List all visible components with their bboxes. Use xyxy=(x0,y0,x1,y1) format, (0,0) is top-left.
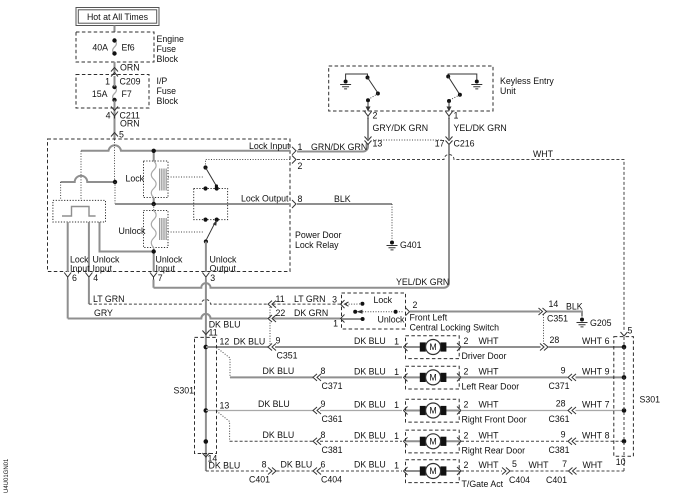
wire DK BLU to right rear door motor xyxy=(230,430,402,441)
relay bottom pins 6,4,7,3 xyxy=(64,273,71,280)
motor T/Gate Act xyxy=(404,460,462,483)
svg-text:GRY/DK GRN: GRY/DK GRN xyxy=(373,123,429,133)
motor Left Rear Door xyxy=(404,366,462,389)
svg-text:13: 13 xyxy=(220,401,230,411)
wire WHT motor Driver Door to S301 xyxy=(461,335,623,351)
Front Left Central Locking Switch box xyxy=(342,293,406,329)
svg-text:M: M xyxy=(429,406,436,416)
svg-text:WHT: WHT xyxy=(479,400,500,410)
svg-text:YEL/DK GRN: YEL/DK GRN xyxy=(454,123,507,133)
svg-text:Input: Input xyxy=(70,264,90,274)
pin 5 into relay xyxy=(111,133,118,137)
fuse Ef6 40A xyxy=(92,38,134,55)
svg-text:1: 1 xyxy=(105,77,110,87)
svg-text:G205: G205 xyxy=(590,318,612,328)
svg-text:Lock Input: Lock Input xyxy=(249,141,290,151)
connector C351 dotted line pins 14-28 xyxy=(543,315,545,345)
svg-text:8: 8 xyxy=(605,430,610,440)
switch lock contact xyxy=(345,302,365,306)
svg-text:F7: F7 xyxy=(122,89,132,99)
svg-text:LT GRN: LT GRN xyxy=(93,294,124,304)
wire splice pin13 to right rear feed xyxy=(217,411,230,441)
wire hot box to engine fuse block xyxy=(114,26,116,33)
svg-text:2: 2 xyxy=(298,161,303,171)
svg-text:2: 2 xyxy=(373,111,378,121)
wire WHT motor Right Rear Door to S301 xyxy=(461,429,623,455)
keyless left switch xyxy=(346,74,380,112)
svg-text:DK BLU: DK BLU xyxy=(354,460,386,470)
svg-text:C216: C216 xyxy=(454,139,475,149)
svg-text:1: 1 xyxy=(454,111,459,121)
svg-text:Driver Door: Driver Door xyxy=(462,351,507,361)
connector C216 pin 17 xyxy=(446,137,453,145)
svg-text:C371: C371 xyxy=(322,381,343,391)
svg-text:WHT: WHT xyxy=(582,430,603,440)
svg-text:8: 8 xyxy=(321,430,326,440)
svg-text:6: 6 xyxy=(72,273,77,283)
svg-text:DK BLU: DK BLU xyxy=(258,399,290,409)
wire DK BLU relay pin3 down to S301 xyxy=(206,280,241,472)
svg-text:DK BLU: DK BLU xyxy=(354,336,386,346)
svg-text:2: 2 xyxy=(464,366,469,376)
keyless pin 1 xyxy=(446,112,453,119)
wire GRN/DK GRN relay pin1 to C216 pin13 xyxy=(297,142,368,152)
svg-text:Front Left: Front Left xyxy=(410,313,448,323)
switch unlock contact xyxy=(342,317,365,321)
svg-text:DK BLU: DK BLU xyxy=(281,460,313,470)
svg-text:Central Locking Switch: Central Locking Switch xyxy=(410,323,500,333)
wire DK BLU S301 pin13 to right front motor xyxy=(206,399,402,411)
upper contact arm xyxy=(206,168,217,187)
svg-text:G401: G401 xyxy=(400,240,422,250)
keyless right switch xyxy=(446,74,477,112)
svg-text:Input: Input xyxy=(156,264,176,274)
node wire B / pin5 junction xyxy=(113,180,117,184)
svg-text:11: 11 xyxy=(276,294,285,304)
svg-text:Power Door: Power Door xyxy=(295,230,342,240)
svg-text:10: 10 xyxy=(616,457,626,467)
relay right edge pins 1,2,8 xyxy=(292,147,296,155)
svg-text:M: M xyxy=(429,373,436,383)
svg-text:7: 7 xyxy=(158,273,163,283)
svg-text:ORN: ORN xyxy=(120,63,140,73)
connector C351 pin 9 xyxy=(268,344,276,351)
svg-text:9: 9 xyxy=(605,366,610,376)
svg-text:Unlock: Unlock xyxy=(378,315,405,325)
svg-text:Keyless Entry: Keyless Entry xyxy=(500,76,554,86)
svg-text:C209: C209 xyxy=(120,77,141,87)
Lock coil L1 xyxy=(126,161,169,198)
svg-text:DK BLU: DK BLU xyxy=(263,366,295,376)
svg-text:Lock Output: Lock Output xyxy=(241,194,289,204)
ground G205 xyxy=(577,318,588,327)
svg-text:C401: C401 xyxy=(249,475,270,485)
svg-text:1: 1 xyxy=(394,367,399,377)
svg-text:2: 2 xyxy=(464,430,469,440)
switch pin 2 xyxy=(406,308,410,316)
wire GRY/DK GRN keyless pin2 down xyxy=(368,118,428,140)
svg-text:Unit: Unit xyxy=(500,86,516,96)
node S301 bus row3 xyxy=(204,408,209,413)
svg-text:6: 6 xyxy=(605,336,610,346)
svg-text:Lock: Lock xyxy=(126,174,145,184)
svg-text:Unlock: Unlock xyxy=(119,226,146,236)
svg-text:DK BLU: DK BLU xyxy=(263,430,295,440)
wire DK BLU S301 pin14 to T/Gate motor xyxy=(206,454,402,485)
svg-text:M: M xyxy=(429,342,436,352)
lock output internal wire xyxy=(115,203,290,205)
fuse F7 15A xyxy=(92,85,132,102)
Engine Fuse Block box xyxy=(76,32,154,62)
I/P Fuse Block box xyxy=(76,75,149,109)
wire YEL/DK GRN relay pin7 to keyless (hop over pin3 wire) xyxy=(154,277,450,288)
connector C211 pin 4 xyxy=(106,101,140,140)
svg-text:Fuse: Fuse xyxy=(157,86,177,96)
svg-text:9: 9 xyxy=(321,399,326,409)
Power Door Lock Relay dashed box xyxy=(48,139,291,272)
splice S301 right box xyxy=(614,337,660,457)
svg-text:WHT: WHT xyxy=(529,460,550,470)
svg-text:4: 4 xyxy=(106,111,111,121)
svg-text:WHT: WHT xyxy=(582,336,603,346)
S301 pin 11 xyxy=(202,331,209,335)
keyless right switch ground xyxy=(471,80,482,89)
svg-text:DK GRN: DK GRN xyxy=(294,308,328,318)
Lock coil connections xyxy=(153,151,155,204)
svg-text:8: 8 xyxy=(321,366,326,376)
svg-text:WHT: WHT xyxy=(582,366,603,376)
keyless left switch ground xyxy=(340,80,351,89)
svg-text:U4U01GN01: U4U01GN01 xyxy=(4,458,10,493)
svg-text:3: 3 xyxy=(332,295,337,305)
connector C216 pin 13 xyxy=(365,137,372,145)
svg-text:9: 9 xyxy=(561,429,566,439)
mechanical links coil to contacts xyxy=(168,177,204,232)
svg-text:DK BLU: DK BLU xyxy=(234,337,266,347)
svg-text:11: 11 xyxy=(209,328,218,338)
svg-text:WHT: WHT xyxy=(533,149,554,159)
svg-text:3: 3 xyxy=(210,273,215,283)
svg-text:M: M xyxy=(429,437,436,447)
svg-text:1: 1 xyxy=(394,400,399,410)
splice S301 left box xyxy=(174,337,217,453)
svg-text:C351: C351 xyxy=(277,351,298,361)
svg-text:WHT: WHT xyxy=(479,366,500,376)
svg-text:28: 28 xyxy=(550,335,560,345)
wire DK BLU S301 pin12 to driver door motor xyxy=(206,337,402,348)
svg-text:15A: 15A xyxy=(92,89,108,99)
svg-text:WHT: WHT xyxy=(583,460,604,470)
svg-text:4: 4 xyxy=(93,273,98,283)
pin 2 internal dotted lead to upper contact xyxy=(206,160,291,165)
connector pin 22 xyxy=(268,315,276,322)
node S301 right bus row xyxy=(622,375,627,380)
wire BLK switch pin2 to ground G205 xyxy=(410,302,583,317)
motor Driver Door xyxy=(404,336,462,359)
svg-text:12: 12 xyxy=(220,337,230,347)
keyless pin 2 xyxy=(365,112,372,119)
power feed label box "Hot at All Times" xyxy=(76,8,159,26)
svg-text:2: 2 xyxy=(464,460,469,470)
relay internal wire A to Lock Input pin 1 (with hop over pin5 lead) xyxy=(81,145,290,151)
svg-text:8: 8 xyxy=(298,194,303,204)
svg-text:1: 1 xyxy=(394,431,399,441)
svg-text:DK BLU: DK BLU xyxy=(209,461,241,471)
svg-text:DK BLU: DK BLU xyxy=(354,366,386,376)
svg-text:2: 2 xyxy=(464,336,469,346)
svg-text:S301: S301 xyxy=(640,395,661,405)
svg-text:8: 8 xyxy=(262,460,267,470)
svg-text:2: 2 xyxy=(464,400,469,410)
node S301 bus row1 xyxy=(204,345,209,350)
svg-text:S301: S301 xyxy=(174,386,195,396)
connector pin 11 xyxy=(268,301,276,308)
svg-text:WHT: WHT xyxy=(479,336,500,346)
svg-text:14: 14 xyxy=(549,299,559,309)
wire YEL/DK GRN keyless pin1 down xyxy=(449,118,507,283)
svg-text:C371: C371 xyxy=(549,381,570,391)
svg-text:C381: C381 xyxy=(322,445,343,455)
node S301 right bus row xyxy=(622,439,627,444)
S301 pin 14 chevron xyxy=(202,453,209,457)
wire WHT motor Left Rear Door to S301 xyxy=(461,365,623,391)
svg-text:5: 5 xyxy=(119,130,124,140)
node S301 right bus row xyxy=(622,345,627,350)
svg-text:WHT: WHT xyxy=(479,430,500,440)
svg-text:5: 5 xyxy=(512,459,517,469)
svg-text:Fuse: Fuse xyxy=(157,44,177,54)
svg-text:Hot at All Times: Hot at All Times xyxy=(87,12,149,22)
svg-text:GRN/DK GRN: GRN/DK GRN xyxy=(311,142,367,152)
svg-text:9: 9 xyxy=(276,336,281,346)
motor Right Front Door xyxy=(404,399,462,422)
wire WHT motor Right Front Door to S301 xyxy=(461,399,623,425)
svg-text:T/Gate Act: T/Gate Act xyxy=(462,479,504,489)
svg-text:YEL/DK GRN: YEL/DK GRN xyxy=(396,277,449,287)
wire splice S301 pin12 to left rear feed xyxy=(217,348,231,378)
svg-text:7: 7 xyxy=(562,459,567,469)
svg-text:Output: Output xyxy=(210,264,237,274)
wire GRY relay pin6 to switch pin1 (hop) xyxy=(68,280,340,319)
lower contact arm with arrow xyxy=(207,224,215,239)
connector dotted line pins 11-22-9 xyxy=(269,307,271,344)
svg-text:C401: C401 xyxy=(546,475,567,485)
unlock output internal lead xyxy=(205,242,207,273)
svg-text:C404: C404 xyxy=(509,475,530,485)
svg-text:Right Rear Door: Right Rear Door xyxy=(462,445,526,455)
svg-text:40A: 40A xyxy=(92,43,108,53)
Unlock coil L2 xyxy=(119,211,169,248)
Keyless Entry Unit box xyxy=(329,66,493,111)
node S301 bus row4 xyxy=(204,439,209,444)
switch common contact arm xyxy=(353,310,404,314)
connector C209 chevrons xyxy=(111,68,118,72)
svg-text:Left Rear Door: Left Rear Door xyxy=(462,381,520,391)
leads into timer box xyxy=(61,151,115,204)
svg-text:C381: C381 xyxy=(549,445,570,455)
svg-text:BLK: BLK xyxy=(334,194,351,204)
svg-text:C361: C361 xyxy=(322,414,343,424)
svg-text:Lock Relay: Lock Relay xyxy=(295,240,339,250)
timer (pulse generator) box xyxy=(53,200,106,222)
relay pin 5 internal lead xyxy=(114,140,116,182)
connector C381 pin 8 xyxy=(313,438,321,445)
connector C351 pin 14 xyxy=(539,308,547,315)
svg-text:22: 22 xyxy=(276,308,286,318)
ground G401 xyxy=(387,241,398,250)
connector C216 dotted line xyxy=(373,139,443,141)
svg-text:Right Front Door: Right Front Door xyxy=(462,415,527,425)
wire C209 to fuse F7 xyxy=(114,76,116,87)
motor Right Rear Door xyxy=(404,430,462,453)
svg-text:17: 17 xyxy=(435,139,445,149)
svg-text:C361: C361 xyxy=(549,414,570,424)
svg-text:WHT: WHT xyxy=(479,460,500,470)
wire ORN engine fuse to I/P fuse block xyxy=(115,62,140,75)
Unlock coil connections xyxy=(153,204,155,211)
svg-text:I/P: I/P xyxy=(157,76,168,86)
svg-text:Engine: Engine xyxy=(157,34,184,44)
timer output leads xyxy=(68,222,154,272)
svg-text:28: 28 xyxy=(556,399,566,409)
svg-text:C351: C351 xyxy=(547,314,568,324)
node S301 right bus row xyxy=(622,408,627,413)
svg-text:Input: Input xyxy=(93,264,113,274)
svg-text:5: 5 xyxy=(628,326,633,336)
svg-text:BLK: BLK xyxy=(566,302,583,312)
svg-text:C404: C404 xyxy=(321,475,342,485)
relay contact assembly box xyxy=(194,189,228,220)
svg-text:DK BLU: DK BLU xyxy=(354,400,386,410)
svg-text:Lock: Lock xyxy=(374,295,393,305)
wire LT GRN relay pin4 to switch pin3 (dashed, hop) xyxy=(89,280,340,305)
svg-text:M: M xyxy=(429,466,436,476)
svg-text:9: 9 xyxy=(561,365,566,375)
svg-text:DK BLU: DK BLU xyxy=(354,430,386,440)
wire DK BLU to left rear door motor xyxy=(230,366,402,377)
svg-text:GRY: GRY xyxy=(94,308,113,318)
svg-text:WHT: WHT xyxy=(582,400,603,410)
S301 right bus wire xyxy=(623,337,625,456)
svg-text:6: 6 xyxy=(321,460,326,470)
wire WHT dashed relay pin2 to S301 (hop over YEL wire) xyxy=(297,149,624,332)
svg-text:1: 1 xyxy=(394,337,399,347)
svg-text:2: 2 xyxy=(413,300,418,310)
wire BLK relay pin8 to ground G401 xyxy=(297,194,392,240)
svg-text:Ef6: Ef6 xyxy=(122,43,135,53)
svg-text:1: 1 xyxy=(394,461,399,471)
wire WHT T/Gate motor to S301 pin10 xyxy=(461,457,624,486)
svg-text:Block: Block xyxy=(157,54,179,64)
svg-text:7: 7 xyxy=(605,400,610,410)
svg-text:ORN: ORN xyxy=(120,119,140,129)
connector C371 pin 8 xyxy=(313,374,321,381)
relay internal wire B (with hop) xyxy=(61,176,115,182)
S301 right pin 5 xyxy=(621,332,628,336)
connector C361 pin 9 xyxy=(313,407,321,414)
svg-text:LT GRN: LT GRN xyxy=(294,294,325,304)
svg-text:1: 1 xyxy=(333,319,338,329)
svg-text:Block: Block xyxy=(157,96,179,106)
